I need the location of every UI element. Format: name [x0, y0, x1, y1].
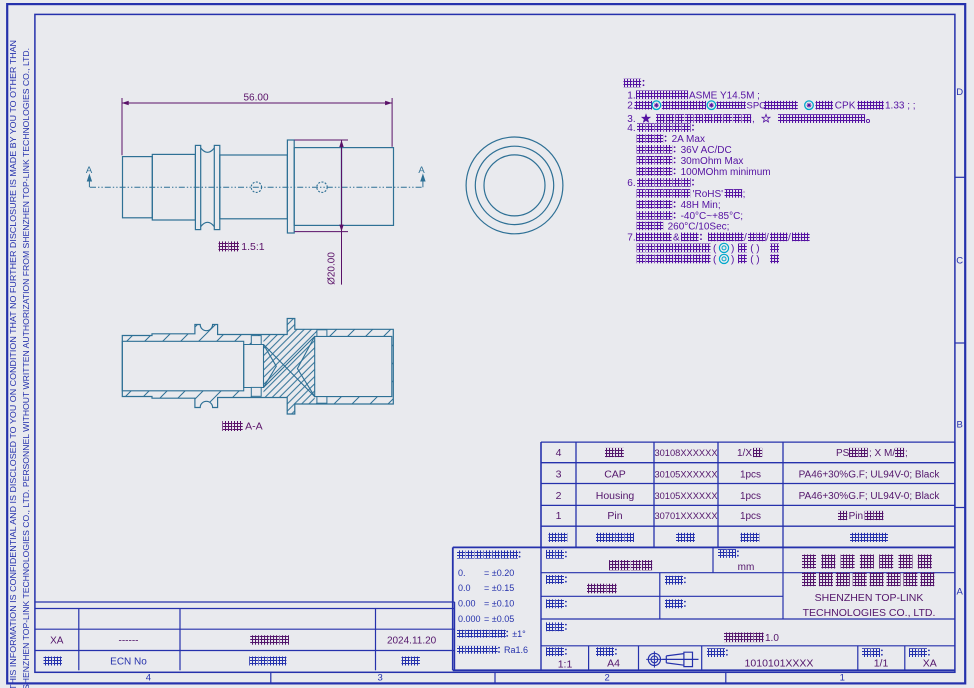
section view A-A: outline — [122, 319, 393, 415]
svg-text:6.: 6. — [627, 178, 635, 189]
svg-text:SHENZHEN TOP-LINK TECHNOLOGIES: SHENZHEN TOP-LINK TECHNOLOGIES CO., LTD.… — [21, 48, 31, 688]
svg-text:= ±0.05: = ±0.05 — [484, 614, 514, 624]
svg-text:2: 2 — [556, 490, 562, 502]
section view: bore step — [244, 345, 264, 388]
svg-text:2024.11.20: 2024.11.20 — [387, 635, 437, 646]
BOM header row — [549, 533, 558, 542]
dimension D20.00 line — [341, 140, 343, 285]
svg-text:CPK: CPK — [835, 101, 856, 112]
svg-text:1pcs: 1pcs — [740, 491, 761, 502]
svg-text:): ) — [731, 243, 734, 254]
svg-text:A-A: A-A — [245, 421, 263, 433]
svg-text:1.33 ; ;: 1.33 ; ; — [885, 101, 916, 112]
svg-text:CAP: CAP — [604, 469, 626, 481]
svg-text:3: 3 — [378, 672, 383, 683]
main view: pin hole circle 2 — [317, 182, 327, 192]
svg-text:A4: A4 — [607, 657, 620, 669]
scale label 比例1.5:1 — [219, 241, 229, 251]
svg-text:1010101XXXX: 1010101XXXX — [745, 657, 814, 669]
svg-text:/: / — [766, 232, 769, 243]
svg-text:D: D — [956, 87, 963, 98]
svg-text:36V AC/DC: 36V AC/DC — [681, 145, 732, 156]
图幅 A4 — [596, 647, 605, 656]
main view: pin hole circle 1 — [251, 182, 261, 192]
main view: middle cylinder — [220, 155, 288, 219]
svg-text:3: 3 — [556, 469, 562, 481]
svg-text:Pin: Pin — [849, 511, 863, 522]
svg-text:2.: 2. — [627, 101, 635, 112]
notes heading 备注: — [624, 79, 633, 88]
main view: right end section — [342, 148, 394, 226]
end view: outer circle — [466, 137, 563, 234]
svg-text:30105XXXXXX: 30105XXXXXX — [654, 470, 717, 480]
版本 XA — [909, 648, 918, 657]
title block outline — [453, 546, 955, 548]
dimension D20.00 extension lines — [295, 139, 349, 141]
note 使用温度 — [637, 211, 646, 220]
svg-text:100MOhm minimum: 100MOhm minimum — [681, 167, 771, 178]
单位 label + mm — [718, 549, 727, 558]
名称 label — [546, 622, 555, 631]
main view: pulley flange left disc — [195, 145, 200, 229]
svg-text:Housing: Housing — [596, 490, 635, 502]
main view: large flange disc — [287, 140, 294, 233]
note 包装需抽真空包装 — [637, 255, 646, 264]
svg-text:1: 1 — [556, 510, 562, 522]
main view centerline — [90, 186, 423, 188]
svg-text:= ±0.15: = ±0.15 — [484, 583, 514, 593]
svg-text:= ±0.20: = ±0.20 — [484, 568, 514, 578]
svg-text:XA: XA — [50, 635, 64, 646]
tolerance box content — [457, 550, 465, 558]
title block grid — [541, 572, 955, 574]
svg-text:0.0: 0.0 — [458, 583, 471, 593]
svg-text:mm: mm — [738, 562, 755, 573]
类别 label + value — [546, 550, 555, 559]
svg-text:0.000: 0.000 — [458, 614, 481, 624]
svg-text:1.5:1: 1.5:1 — [241, 241, 265, 253]
svg-text:): ) — [731, 254, 734, 265]
svg-text:1/X: 1/X — [737, 448, 752, 459]
制图 + 李华粉 — [546, 575, 555, 584]
svg-text:( ): ( ) — [750, 243, 759, 254]
svg-text:1: 1 — [840, 672, 845, 683]
svg-text:; X M/: ; X M/ — [869, 448, 895, 459]
svg-text:±1°: ±1° — [512, 629, 526, 639]
svg-text:2: 2 — [605, 672, 610, 683]
main view: second step cylinder — [152, 154, 195, 220]
svg-text:Ø20.00: Ø20.00 — [327, 252, 338, 285]
比例 1:1 — [546, 647, 555, 656]
svg-text:1/1: 1/1 — [874, 657, 889, 669]
svg-text:/: / — [744, 232, 747, 243]
svg-text:PA46+30%G.F; UL94V-0; Black: PA46+30%G.F; UL94V-0; Black — [799, 470, 941, 481]
svg-text:7.: 7. — [627, 232, 635, 243]
svg-text:XA: XA — [923, 657, 937, 669]
section view: right cavity — [315, 336, 392, 396]
note 有害物质 RoHS — [637, 189, 646, 198]
svg-text:ECN No: ECN No — [110, 656, 147, 667]
svg-text:1.0: 1.0 — [765, 633, 779, 644]
svg-text:A: A — [957, 586, 964, 597]
svg-text:4.: 4. — [627, 123, 635, 134]
svg-text:-40°C~+85°C;: -40°C~+85°C; — [681, 211, 743, 222]
section view: dense hatch middle part — [122, 319, 393, 415]
note 绝缘阻抗 — [637, 167, 646, 176]
company name CN — [802, 555, 816, 569]
svg-text:1:1: 1:1 — [558, 659, 573, 671]
main view: pulley flange right disc — [214, 145, 220, 229]
name value 压线端子1.0 — [724, 633, 734, 643]
svg-text:30105XXXXXX: 30105XXXXXX — [654, 491, 717, 501]
revision header row — [44, 657, 53, 666]
revision table — [35, 601, 455, 603]
section view A-A: hatched body — [122, 319, 393, 415]
svg-text:56.00: 56.00 — [243, 93, 268, 104]
dimension 56.00 line — [122, 102, 392, 104]
svg-text:------: ------ — [119, 635, 139, 646]
svg-text:&: & — [673, 232, 680, 243]
发行 — [665, 599, 674, 608]
end view: inner circle — [484, 155, 545, 216]
svg-text:1pcs: 1pcs — [740, 470, 761, 481]
section view: pin cones and cross — [264, 336, 315, 396]
svg-text:4: 4 — [146, 672, 151, 683]
svg-text:;: ; — [905, 448, 908, 459]
svg-text:C: C — [956, 255, 963, 266]
BOM row1 desc — [838, 511, 847, 520]
BOM table grid — [541, 441, 955, 443]
dimension 56.00 extension lines — [121, 98, 123, 155]
svg-text:SPC: SPC — [747, 101, 767, 112]
料号 label + value — [707, 648, 716, 657]
section label 截面A-A — [222, 421, 232, 431]
main view: pulley groove arcs — [201, 148, 215, 227]
svg-text:Ra1.6: Ra1.6 — [504, 645, 528, 655]
section view: latch notches — [251, 336, 261, 345]
svg-text:PS: PS — [836, 448, 850, 459]
svg-text:30701XXXXXX: 30701XXXXXX — [654, 511, 717, 521]
svg-text:'RoHS': 'RoHS' — [693, 189, 724, 200]
svg-text:/: / — [788, 232, 791, 243]
end view: middle circle — [475, 146, 553, 224]
核准 — [665, 576, 674, 585]
main view: left small cylinder — [123, 157, 153, 218]
svg-text:B: B — [957, 419, 963, 430]
svg-text:,: , — [752, 114, 755, 125]
svg-text:( ): ( ) — [750, 254, 759, 265]
svg-text:Pin: Pin — [607, 510, 622, 522]
页次 1/1 — [862, 648, 871, 657]
svg-text:30108XXXXXX: 30108XXXXXX — [654, 448, 717, 458]
note 耐高温 — [637, 222, 646, 231]
projection symbol — [648, 653, 660, 665]
note 接触阻抗 — [637, 156, 646, 165]
svg-text:2A Max: 2A Max — [672, 134, 705, 145]
svg-text:TECHNOLOGIES CO., LTD.: TECHNOLOGIES CO., LTD. — [803, 607, 936, 619]
svg-text:1pcs: 1pcs — [740, 511, 761, 522]
svg-text:4: 4 — [556, 447, 562, 459]
svg-text:= ±0.10: = ±0.10 — [484, 599, 514, 609]
main view: right body section — [294, 148, 341, 226]
svg-text:;: ; — [743, 189, 746, 200]
svg-text:ASME Y14.5M ;: ASME Y14.5M ; — [689, 90, 760, 101]
svg-text:260°C/10Sec;: 260°C/10Sec; — [668, 221, 730, 232]
svg-text:THIS INFORMATION IS CONFIDENTI: THIS INFORMATION IS CONFIDENTIAL AND IS … — [8, 40, 18, 688]
svg-text:PA46+30%G.F; UL94V-0; Black: PA46+30%G.F; UL94V-0; Black — [799, 491, 941, 502]
svg-text:30mOhm Max: 30mOhm Max — [681, 156, 744, 167]
svg-text:SHENZHEN TOP-LINK: SHENZHEN TOP-LINK — [815, 592, 924, 604]
section view: main bore — [122, 341, 243, 391]
svg-text:0.: 0. — [458, 568, 466, 578]
note 包装前塑胶需烘烤 — [637, 244, 646, 253]
note 额定电压 — [637, 145, 646, 154]
审阅 — [546, 599, 555, 608]
svg-text:48H Min;: 48H Min; — [681, 200, 721, 211]
svg-text:0.00: 0.00 — [458, 599, 476, 609]
note 盐雾测试 — [637, 200, 646, 209]
note 耐电流 — [637, 134, 646, 143]
svg-text:A: A — [418, 165, 425, 176]
svg-text:1.: 1. — [627, 90, 635, 101]
